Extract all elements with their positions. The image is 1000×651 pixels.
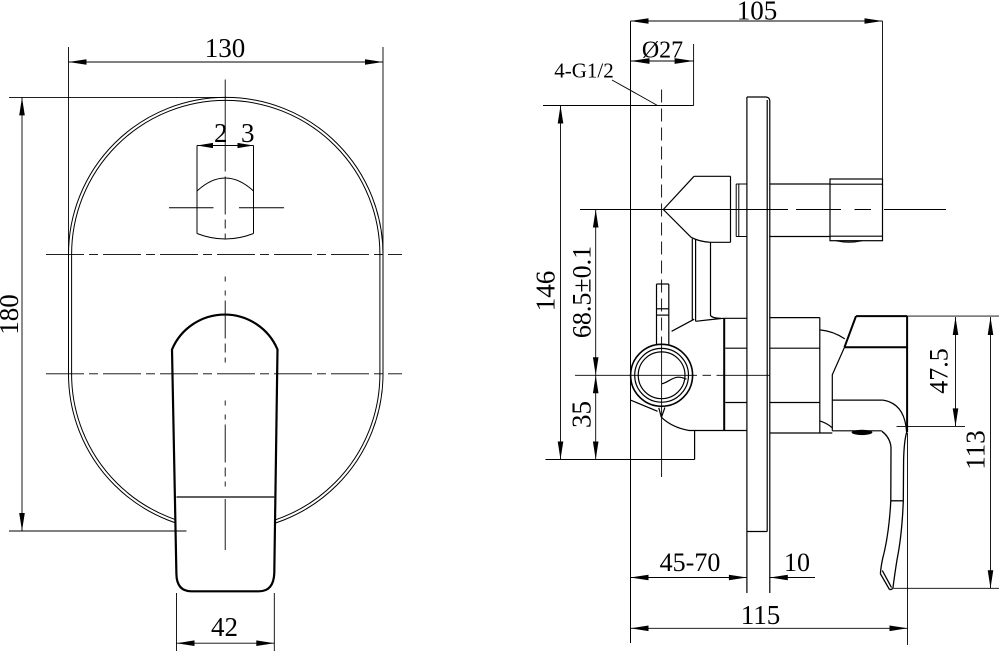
escutcheon plate outer outline — [69, 97, 384, 531]
svg-text:180: 180 — [0, 294, 24, 335]
dimension 68.5 +/- 0.1 — [593, 210, 599, 376]
dimension 45-70 — [631, 575, 747, 581]
cartridge sleeve left of plate — [689, 348, 747, 430]
inlet boss ring outer — [635, 348, 689, 402]
dimension 42 — [177, 593, 275, 651]
dimension 115 — [631, 433, 908, 645]
svg-text:4-G1/2: 4-G1/2 — [554, 59, 614, 83]
dimension 113 — [893, 317, 999, 588]
dimension 35 — [593, 375, 599, 459]
dimension 146 — [558, 106, 564, 460]
svg-text:35: 35 — [567, 401, 597, 428]
drain notch below inlet — [659, 408, 689, 431]
svg-text:47.5: 47.5 — [925, 348, 954, 394]
cartridge front face (bold) — [723, 318, 725, 430]
svg-text:45-70: 45-70 — [660, 548, 721, 577]
svg-text:105: 105 — [737, 0, 778, 26]
valve body neck below elbow — [692, 239, 721, 322]
svg-text:3: 3 — [241, 118, 255, 148]
svg-text:10: 10 — [784, 548, 810, 577]
inlet port horizontal centerline — [575, 374, 697, 376]
inlet boss outer circle (bold) — [631, 344, 693, 406]
diverter button cross ticks — [169, 207, 284, 209]
coupling nut — [830, 179, 883, 242]
dimension 10 — [770, 575, 815, 581]
svg-text:146: 146 — [531, 271, 561, 312]
outlet elbow body — [663, 176, 730, 242]
svg-text:68.5±0.1: 68.5±0.1 — [568, 246, 597, 338]
passage edge inside inlet — [662, 377, 687, 384]
dimension diameter 27 — [631, 44, 694, 106]
svg-text:113: 113 — [961, 430, 991, 470]
handle fillet arcs at sleeve — [820, 330, 845, 339]
body chamfer above inlet boss — [672, 319, 695, 331]
body chamfer below-left of inlet — [631, 400, 658, 411]
vertical dashed axis of wall ports — [661, 90, 663, 340]
handle blade — [880, 431, 906, 589]
handle neck — [832, 347, 906, 432]
front view vertical centerline — [224, 80, 226, 167]
handle side view cap (bold) — [845, 316, 908, 432]
front view upper horizontal centerline — [46, 254, 402, 256]
wall mounting reference line — [630, 21, 632, 643]
dimension 23 — [197, 143, 254, 148]
valve body top edge — [696, 318, 747, 321]
top port extension line — [543, 105, 694, 107]
lever handle front view (bold, hides plate behind) — [172, 315, 278, 592]
bottom port reference line — [546, 459, 695, 461]
bottom inlet pipe edge — [694, 431, 696, 460]
svg-text:42: 42 — [211, 612, 238, 642]
dimension 47.5 — [897, 316, 1000, 426]
set screw (filled) — [852, 430, 873, 435]
main horizontal centerline — [580, 209, 788, 211]
svg-text:2: 2 — [214, 118, 228, 148]
dimension 105 — [631, 18, 883, 179]
diverter button outline — [197, 146, 254, 240]
svg-text:130: 130 — [205, 33, 246, 63]
check valve stub above inlet — [657, 284, 669, 345]
escutcheon plate inner outline — [72, 100, 380, 528]
front view lower horizontal centerline — [46, 373, 402, 375]
svg-text:115: 115 — [741, 600, 781, 630]
inlet boss ring inner — [638, 352, 685, 399]
escutcheon plate side view — [747, 97, 770, 593]
leader line for 4-G1/2 — [612, 80, 658, 106]
dimension 130 — [69, 47, 384, 257]
outlet pipe to handle side — [770, 184, 830, 237]
cartridge sleeve right of plate — [770, 318, 833, 433]
dimension 180 — [9, 97, 227, 531]
handle front face line — [177, 496, 275, 498]
washer behind plate (top port) — [736, 184, 747, 237]
svg-text:Ø27: Ø27 — [642, 38, 683, 64]
